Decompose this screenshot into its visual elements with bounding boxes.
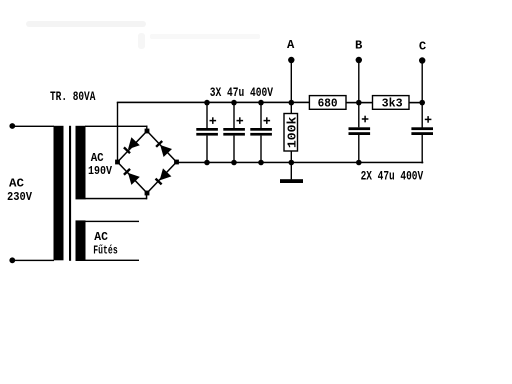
- svg-text:AC: AC: [91, 151, 104, 165]
- svg-text:AC: AC: [9, 177, 24, 191]
- svg-text:TR. 80VA: TR. 80VA: [50, 90, 96, 104]
- svg-text:190V: 190V: [88, 164, 113, 178]
- svg-text:AC: AC: [94, 230, 108, 244]
- svg-text:2X 47u 400V: 2X 47u 400V: [361, 168, 424, 183]
- svg-text:100k: 100k: [285, 117, 299, 149]
- svg-text:C: C: [419, 39, 426, 53]
- svg-text:B: B: [355, 38, 362, 52]
- svg-text:3k3: 3k3: [382, 97, 403, 110]
- svg-text:A: A: [287, 38, 295, 52]
- svg-text:3X 47u 400V: 3X 47u 400V: [210, 85, 273, 100]
- svg-text:Fűtés: Fűtés: [93, 244, 117, 258]
- svg-text:230V: 230V: [7, 190, 33, 204]
- svg-text:680: 680: [318, 97, 338, 110]
